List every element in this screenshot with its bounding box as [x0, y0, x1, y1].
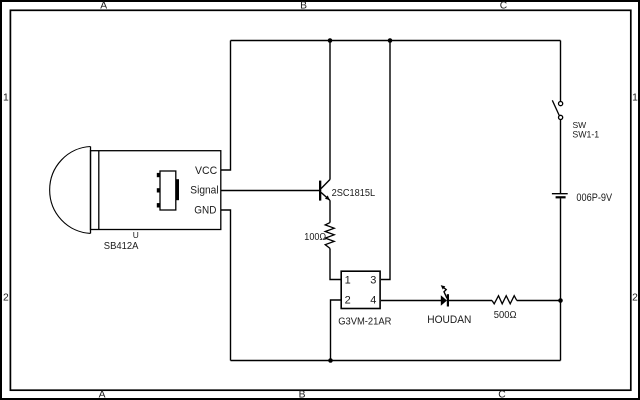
svg-text:A: A — [99, 390, 106, 400]
junction top rail at collector branch — [328, 38, 333, 43]
wire resistor 500 to right rail — [517, 300, 561, 302]
wire collector to top rail — [329, 41, 331, 180]
wire resistor to pin1 — [330, 248, 341, 279]
wire GND pin to bottom rail — [221, 210, 231, 361]
svg-text:2: 2 — [3, 293, 9, 304]
wire Signal pin to base — [221, 190, 319, 192]
wire battery to bottom rail — [560, 198, 562, 360]
svg-text:SW: SW — [573, 120, 587, 130]
wire top rail — [231, 40, 561, 42]
svg-text:1: 1 — [345, 275, 351, 287]
svg-text:GND: GND — [194, 205, 216, 217]
svg-text:2: 2 — [632, 293, 638, 304]
resistor 100Ω — [325, 223, 334, 249]
sensor dome arc — [50, 147, 91, 234]
sensor U SB412A body — [91, 147, 221, 234]
svg-text:006P-9V: 006P-9V — [576, 192, 612, 204]
wire emitter to resistor — [329, 200, 331, 222]
svg-text:2: 2 — [345, 295, 351, 307]
resistor 500Ω — [492, 296, 517, 304]
svg-text:SB412A: SB412A — [104, 241, 139, 252]
svg-text:500Ω: 500Ω — [494, 310, 517, 321]
svg-text:1: 1 — [3, 93, 9, 104]
svg-text:C: C — [500, 1, 508, 12]
svg-text:1: 1 — [632, 93, 638, 104]
svg-text:100Ω: 100Ω — [304, 232, 326, 243]
wire VCC pin to top rail — [221, 41, 231, 171]
svg-text:B: B — [300, 1, 307, 12]
wire switch to battery — [560, 120, 562, 194]
svg-text:3: 3 — [370, 275, 376, 287]
svg-text:A: A — [100, 1, 107, 12]
wire bottom rail — [231, 360, 561, 362]
svg-text:Signal: Signal — [190, 185, 218, 197]
switch SW SW1-1 — [552, 100, 562, 119]
wire pin4 to LED — [381, 300, 441, 302]
sensor inner element — [157, 171, 179, 210]
junction top rail at pin3 branch — [388, 38, 393, 43]
battery 006P-9V — [552, 194, 568, 199]
svg-text:G3VM-21AR: G3VM-21AR — [338, 317, 391, 328]
LED HOUDAN — [441, 285, 449, 306]
relay U G3VM-21AR — [341, 271, 380, 308]
svg-text:SW1-1: SW1-1 — [572, 129, 599, 139]
junction right rail at LED branch — [558, 298, 563, 303]
svg-text:VCC: VCC — [195, 165, 217, 177]
svg-text:U: U — [133, 230, 139, 240]
wire pin3 to top rail — [381, 41, 390, 280]
svg-text:HOUDAN: HOUDAN — [427, 314, 471, 326]
svg-text:B: B — [299, 390, 306, 400]
wire pin2 to bottom rail — [331, 300, 342, 361]
svg-text:C: C — [498, 390, 506, 400]
svg-text:4: 4 — [370, 295, 376, 307]
junction bottom rail at pin2 branch — [328, 358, 333, 363]
transistor Q 2SC1815L — [319, 179, 330, 200]
svg-text:2SC1815L: 2SC1815L — [332, 188, 376, 199]
wire LED to resistor 500 — [449, 300, 492, 302]
wire top rail to switch — [560, 41, 562, 102]
